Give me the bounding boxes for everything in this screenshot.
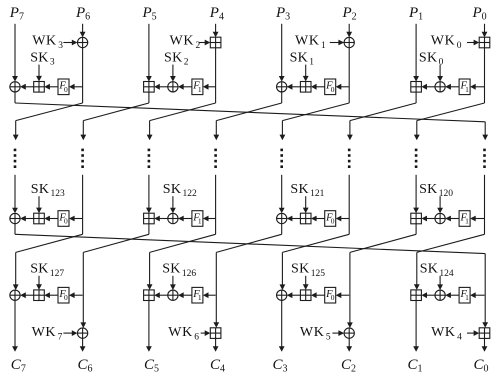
wire from F box into keyed element — [445, 292, 459, 298]
wire from keyed element into left element — [20, 84, 34, 90]
wire from F box into keyed element — [44, 84, 58, 90]
node P5 plaintext byte label — [142, 5, 157, 23]
label SK122 — [163, 182, 197, 199]
svg-text:123: 123 — [51, 189, 66, 199]
svg-text:C4: C4 — [210, 357, 225, 375]
modular-add on branch line (round with SK0) — [411, 82, 422, 93]
label WK2 — [170, 34, 201, 51]
F-function box F0 (round with SK3) — [58, 79, 69, 95]
wire output branch 1 from round-3 element to C7 arrow — [12, 300, 18, 352]
F-function box F1 (round with SK120) — [459, 211, 470, 227]
modular-add whitening WK4 — [479, 328, 490, 339]
wire stub below round-2 left element branch 3 — [148, 224, 150, 235]
svg-text:SK: SK — [31, 182, 50, 197]
svg-text:124: 124 — [439, 269, 454, 279]
svg-text:SK: SK — [164, 50, 183, 65]
svg-text:SK: SK — [290, 50, 309, 65]
svg-text:SK: SK — [419, 182, 438, 197]
node C4 ciphertext byte label — [210, 357, 225, 375]
F-function box F1 (round with SK126) — [192, 287, 203, 303]
node C1 ciphertext byte label — [408, 357, 423, 375]
node C3 ciphertext byte label — [273, 357, 288, 375]
wire P3 input line into round-1 element — [279, 24, 285, 82]
svg-text:3: 3 — [50, 58, 55, 68]
svg-text:1: 1 — [465, 293, 469, 302]
wire branch 7 resumes into round-2 element — [413, 175, 419, 213]
modular-add whitening WK0 — [479, 37, 490, 48]
wire branch below WK3 element down to crossing — [82, 48, 84, 103]
wire crossing round-1: branch 2 to branch 1 — [13, 103, 83, 140]
F-function box F0 (round with SK123) — [58, 211, 69, 227]
wire P0 input line into whitening element — [482, 24, 488, 38]
wire crossing round-2: branch 4 to branch 3 into round-3 element — [147, 234, 216, 290]
svg-text:2: 2 — [184, 58, 189, 68]
svg-text:0: 0 — [64, 293, 68, 302]
wire WK6 arrow into element — [201, 330, 211, 336]
wire SK120 arrow into keyed element — [437, 196, 443, 213]
svg-text:1: 1 — [198, 217, 202, 226]
label SK120 — [419, 182, 453, 199]
wire crossing round-1: branch 3 to branch 2 — [80, 103, 148, 140]
wire from F box into keyed element — [178, 216, 192, 222]
svg-text:C2: C2 — [341, 357, 356, 375]
wire branch 6 resumes down through round-2 to crossing — [348, 175, 350, 235]
F-function box F1 (round with SK124) — [459, 287, 470, 303]
modular-add on branch line (round with SK124) — [411, 290, 422, 301]
wire from right branch into F box — [203, 216, 216, 222]
wire from right branch into F box — [336, 216, 350, 222]
wire SK3 arrow into keyed element — [36, 65, 42, 82]
F-function box F1 (round with SK122) — [192, 211, 203, 227]
wire SK122 arrow into keyed element — [170, 196, 176, 213]
wire P5 input line into round-1 element — [146, 24, 152, 82]
svg-text:1: 1 — [309, 58, 314, 68]
wire branch below WK2 element down to crossing — [215, 48, 217, 103]
wire from right branch into F box — [336, 292, 350, 298]
wire SK2 arrow into keyed element — [170, 65, 176, 82]
wire WK1 arrow into element — [330, 40, 344, 46]
svg-text:4: 4 — [457, 333, 462, 343]
XOR whitening WK5 — [344, 328, 354, 338]
svg-text:WK: WK — [300, 325, 325, 340]
node C2 ciphertext byte label — [341, 357, 356, 375]
wire stub below round-2 left element branch 5 — [281, 224, 283, 235]
svg-text:0: 0 — [331, 85, 335, 94]
svg-text:P5: P5 — [142, 5, 157, 23]
wire from F box into keyed element — [44, 292, 58, 298]
label WK4 — [431, 325, 462, 342]
svg-text:WK: WK — [431, 34, 456, 49]
wire from keyed element into left element — [20, 292, 34, 298]
wire crossing round-2: branch 7 to branch 6 down to whitening — [347, 234, 416, 328]
F-function box F0 (round with SK125) — [325, 287, 336, 303]
wire P6 input line into whitening element — [80, 24, 86, 38]
svg-text:6: 6 — [194, 333, 199, 343]
node C0 ciphertext byte label — [474, 357, 489, 375]
label SK123 — [31, 182, 65, 199]
wire from right branch into F box — [203, 84, 216, 90]
svg-text:0: 0 — [457, 41, 462, 51]
svg-text:WK: WK — [32, 325, 57, 340]
ellipsis dots on branch 4 (omitted rounds) — [214, 149, 217, 168]
XOR on branch 3 line (round with SK125) — [277, 290, 287, 300]
svg-text:1: 1 — [198, 85, 202, 94]
modular-add keyed by SK1 — [300, 82, 311, 93]
ellipsis dots on branch 3 (omitted rounds) — [148, 149, 151, 168]
svg-text:WK: WK — [168, 325, 193, 340]
wire from F box into keyed element — [311, 84, 325, 90]
svg-text:5: 5 — [326, 333, 331, 343]
wire SK123 arrow into keyed element — [36, 196, 42, 213]
F-function box F1 (round with SK0) — [459, 79, 470, 95]
XOR keyed by SK122 — [168, 213, 178, 223]
wire P4 input line into whitening element — [213, 24, 219, 38]
XOR on branch 7 line (round with SK127) — [10, 290, 20, 300]
svg-text:SK: SK — [162, 262, 181, 277]
label SK2 — [164, 50, 189, 67]
node C7 ciphertext byte label — [11, 357, 26, 375]
svg-text:SK: SK — [290, 182, 309, 197]
svg-text:WK: WK — [32, 34, 57, 49]
svg-text:1: 1 — [198, 293, 202, 302]
wire output branch 7 from round-3 element to C1 arrow — [413, 301, 419, 352]
svg-text:SK: SK — [419, 50, 438, 65]
XOR keyed by SK124 — [435, 290, 445, 300]
wire from F box into keyed element — [311, 216, 325, 222]
svg-text:1: 1 — [465, 217, 469, 226]
XOR whitening WK7 — [77, 328, 87, 338]
modular-add keyed by SK123 — [34, 213, 45, 224]
wire from F box into keyed element — [44, 216, 58, 222]
wire from keyed element into left element — [154, 216, 168, 222]
svg-text:P3: P3 — [275, 5, 290, 23]
node P7 plaintext byte label — [9, 5, 24, 23]
node P3 plaintext byte label — [275, 5, 290, 23]
svg-text:C0: C0 — [474, 357, 489, 375]
svg-text:0: 0 — [64, 217, 68, 226]
wire branch 3 resumes into round-2 element — [146, 175, 152, 213]
svg-text:SK: SK — [163, 182, 182, 197]
node P6 plaintext byte label — [75, 5, 90, 23]
wire output branch 3 from round-3 element to C5 arrow — [146, 301, 152, 352]
node P1 plaintext byte label — [408, 5, 423, 23]
svg-text:121: 121 — [310, 189, 325, 199]
modular-add on branch line (round with SK120) — [411, 213, 422, 224]
svg-text:126: 126 — [182, 269, 197, 279]
wire crossing round-1: branch 4 to branch 3 — [147, 103, 216, 140]
F-function box F0 (round with SK1) — [325, 79, 336, 95]
node P0 plaintext byte label — [472, 5, 487, 23]
wire SK0 arrow into keyed element — [437, 65, 443, 82]
label WK5 — [300, 325, 331, 342]
svg-text:0: 0 — [331, 217, 335, 226]
XOR keyed by SK2 — [168, 82, 178, 92]
wire branch 2 resumes down through round-2 to crossing — [82, 175, 84, 235]
wire from F box into keyed element — [445, 216, 459, 222]
wire output below WK7 element to C arrow — [80, 338, 86, 352]
wire stub below round-1 left element branch 1 — [14, 92, 16, 103]
wire output below WK4 element to C arrow — [482, 338, 488, 351]
wire crossing round-2: branch 2 to branch 1 into round-3 element — [13, 234, 83, 290]
wire crossing round-2: branch 8 to branch 7 into round-3 element — [414, 234, 485, 290]
label SK127 — [30, 262, 64, 279]
ellipsis dots on branch 7 (omitted rounds) — [415, 149, 418, 168]
svg-text:SK: SK — [291, 262, 310, 277]
wire WK4 arrow into element — [467, 330, 479, 336]
wire from right branch into F box — [470, 292, 484, 298]
svg-text:C7: C7 — [11, 357, 26, 375]
ellipsis dots on branch 1 (omitted rounds) — [14, 149, 17, 168]
wire stub below round-1 left element branch 7 — [415, 92, 417, 103]
wire crossing round-1: branch 7 to branch 6 — [347, 103, 416, 140]
svg-text:0: 0 — [331, 293, 335, 302]
modular-add on branch line (round with SK2) — [144, 82, 155, 93]
svg-text:C5: C5 — [144, 357, 159, 375]
XOR on branch 7 line (round with SK3) — [10, 82, 20, 92]
wire output below WK5 element to C arrow — [346, 338, 352, 352]
wire crossing round-1: branch 5 to branch 4 — [213, 103, 281, 140]
label WK7 — [32, 325, 63, 342]
modular-add on branch line (round with SK122) — [144, 213, 155, 224]
svg-text:P7: P7 — [9, 5, 24, 23]
XOR whitening WK3 — [77, 37, 87, 47]
wire stub below round-1 left element branch 3 — [148, 92, 150, 103]
wire branch 5 resumes into round-2 element — [279, 175, 285, 214]
wire branch below WK0 element down to crossing — [484, 48, 486, 103]
svg-text:C1: C1 — [408, 357, 423, 375]
label WK1 — [295, 34, 326, 51]
wire WK3 arrow into element — [63, 40, 77, 46]
wire crossing round-2: branch 5 to branch 4 down to whitening — [213, 234, 281, 327]
XOR keyed by SK120 — [435, 213, 445, 223]
label SK3 — [30, 50, 55, 67]
node P4 plaintext byte label — [209, 5, 224, 23]
ellipsis dots on branch 8 (omitted rounds) — [483, 149, 486, 168]
svg-text:120: 120 — [439, 189, 454, 199]
wire from right branch into F box — [470, 84, 484, 90]
wire stub below round-1 left element branch 5 — [281, 92, 283, 103]
wire from keyed element into left element — [154, 84, 168, 90]
wire from F box into keyed element — [311, 292, 325, 298]
wire SK127 arrow into keyed element — [36, 276, 42, 290]
wire output branch 5 from round-3 element to C3 arrow — [279, 300, 285, 352]
label SK125 — [291, 262, 325, 279]
XOR on branch 3 line (round with SK121) — [277, 213, 287, 223]
svg-text:3: 3 — [58, 41, 63, 51]
svg-text:SK: SK — [30, 50, 49, 65]
XOR whitening WK1 — [344, 37, 354, 47]
wire from right branch into F box — [470, 216, 484, 222]
wire from keyed element into left element — [421, 292, 435, 298]
wire SK126 arrow into keyed element — [170, 276, 176, 290]
wire from F box into keyed element — [178, 84, 192, 90]
wire from keyed element into left element — [20, 216, 34, 222]
svg-text:C6: C6 — [78, 357, 93, 375]
svg-text:127: 127 — [50, 269, 65, 279]
svg-text:WK: WK — [431, 325, 456, 340]
XOR keyed by SK126 — [168, 290, 178, 300]
wire crossing round-2: branch 6 to branch 5 into round-3 element — [280, 234, 350, 290]
svg-text:P1: P1 — [408, 5, 423, 23]
XOR keyed by SK0 — [435, 82, 445, 92]
svg-text:7: 7 — [58, 333, 63, 343]
wire SK1 arrow into keyed element — [303, 65, 309, 82]
wire P7 input line into round-1 element — [12, 24, 18, 82]
svg-text:0: 0 — [64, 85, 68, 94]
wire crossing round-1: branch 8 to branch 7 — [414, 103, 485, 140]
modular-add keyed by SK3 — [34, 82, 45, 93]
wire crossing round-1: branch 6 to branch 5 — [280, 103, 350, 140]
wire SK121 arrow into keyed element — [303, 196, 309, 213]
modular-add keyed by SK125 — [300, 290, 311, 301]
F-function box F0 (round with SK127) — [58, 287, 69, 303]
wire from right branch into F box — [69, 216, 83, 222]
wire from keyed element into left element — [287, 84, 301, 90]
wire from keyed element into left element — [154, 292, 168, 298]
wire output below WK6 element to C arrow — [213, 338, 219, 351]
svg-text:WK: WK — [170, 34, 195, 49]
wire stub below round-2 left element branch 1 — [14, 224, 16, 235]
wire SK124 arrow into keyed element — [437, 276, 443, 290]
wire WK7 arrow into element — [63, 330, 77, 336]
wire from keyed element into left element — [287, 216, 301, 222]
F-function box F0 (round with SK121) — [325, 211, 336, 227]
modular-add keyed by SK127 — [34, 290, 45, 301]
svg-text:P0: P0 — [472, 5, 487, 23]
svg-text:WK: WK — [295, 34, 320, 49]
wire from right branch into F box — [69, 84, 83, 90]
modular-add on branch line (round with SK126) — [144, 290, 155, 301]
wire from right branch into F box — [203, 292, 216, 298]
node C6 ciphertext byte label — [78, 357, 93, 375]
svg-text:SK: SK — [420, 262, 439, 277]
wire branch 8 resumes down through round-2 to crossing — [484, 175, 486, 235]
wire from right branch into F box — [336, 84, 350, 90]
wire branch below WK1 element down to crossing — [348, 48, 350, 103]
wire P2 input line into whitening element — [346, 24, 352, 38]
svg-text:P2: P2 — [342, 5, 357, 23]
label WK3 — [32, 34, 63, 51]
wire from F box into keyed element — [178, 292, 192, 298]
label SK0 — [419, 50, 444, 67]
wire from keyed element into left element — [421, 84, 435, 90]
label SK1 — [290, 50, 315, 67]
node C5 ciphertext byte label — [144, 357, 159, 375]
wire SK125 arrow into keyed element — [303, 276, 309, 290]
XOR on branch 7 line (round with SK123) — [10, 213, 20, 223]
wire WK0 arrow into element — [467, 40, 479, 46]
XOR on branch 3 line (round with SK1) — [277, 82, 287, 92]
svg-text:P4: P4 — [209, 5, 224, 23]
wire branch 1 resumes into round-2 element — [12, 175, 18, 214]
F-function box F1 (round with SK2) — [192, 79, 203, 95]
modular-add whitening WK2 — [210, 37, 221, 48]
svg-text:1: 1 — [465, 85, 469, 94]
wire WK5 arrow into element — [332, 330, 344, 336]
node P2 plaintext byte label — [342, 5, 357, 23]
wire branch 4 resumes down through round-2 to crossing — [215, 175, 217, 235]
wire crossing round-2: branch 1 wraps to branch 8 down to whitening — [15, 234, 488, 327]
svg-text:122: 122 — [183, 189, 198, 199]
ellipsis dots on branch 6 (omitted rounds) — [348, 149, 351, 168]
wire crossing round-2: branch 3 to branch 2 down to whitening — [80, 234, 148, 328]
wire from right branch into F box — [69, 292, 83, 298]
svg-text:125: 125 — [311, 269, 326, 279]
svg-text:1: 1 — [321, 41, 326, 51]
modular-add keyed by SK121 — [300, 213, 311, 224]
modular-add whitening WK6 — [210, 328, 221, 339]
label SK121 — [290, 182, 324, 199]
label WK6 — [168, 325, 199, 342]
wire crossing round-1: branch 1 wraps to branch 8 — [15, 103, 488, 140]
wire from F box into keyed element — [445, 84, 459, 90]
wire from keyed element into left element — [421, 216, 435, 222]
svg-text:SK: SK — [30, 262, 49, 277]
label WK0 — [431, 34, 462, 51]
ellipsis dots on branch 5 (omitted rounds) — [280, 149, 283, 168]
svg-text:0: 0 — [439, 58, 444, 68]
wire P1 input line into round-1 element — [413, 24, 419, 82]
label SK126 — [162, 262, 196, 279]
label SK124 — [420, 262, 454, 279]
wire from keyed element into left element — [287, 292, 301, 298]
svg-text:C3: C3 — [273, 357, 288, 375]
wire stub below round-2 left element branch 7 — [415, 224, 417, 235]
ellipsis dots on branch 2 (omitted rounds) — [81, 149, 84, 168]
wire WK2 arrow into element — [199, 40, 211, 46]
svg-text:P6: P6 — [75, 5, 90, 23]
